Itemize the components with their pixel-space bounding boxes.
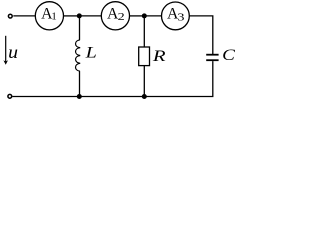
wire node b down to resistor (143, 16, 145, 47)
svg-text:1: 1 (51, 11, 56, 23)
resistor R body (139, 47, 150, 66)
wire A3 to top-right corner (189, 16, 213, 54)
node a (junction dot top of L) (77, 13, 82, 18)
wire top-left to A1 (13, 15, 35, 17)
svg-text:L: L (84, 44, 97, 61)
inductor L coil (76, 40, 81, 71)
wire node a down to inductor (79, 16, 81, 40)
wire A2 to node b (130, 15, 145, 17)
ammeter A2 (101, 2, 129, 30)
terminal bottom-left (8, 94, 12, 98)
node b (junction dot top of R) (142, 13, 147, 18)
voltage arrow u (3, 36, 8, 65)
svg-text:u: u (8, 42, 18, 62)
ammeter A1 (35, 2, 63, 30)
node c (junction dot bottom of L) (77, 94, 82, 99)
wire capacitor to bottom-right corner (12, 61, 213, 96)
terminal top-left (8, 14, 12, 18)
svg-text:2: 2 (118, 11, 125, 23)
svg-text:R: R (152, 46, 166, 65)
capacitor C1 bottom plate (206, 59, 218, 61)
wire node a to A2 (79, 15, 101, 17)
wire node b to A3 (144, 15, 161, 17)
capacitor C1 top plate (206, 54, 218, 56)
wire resistor to bottom node d (143, 66, 145, 97)
node d (junction dot bottom of R) (142, 94, 147, 99)
svg-text:C: C (222, 45, 236, 64)
wire A1 to node a (64, 15, 80, 17)
ammeter A3 (162, 2, 190, 30)
svg-text:3: 3 (177, 12, 184, 24)
wire inductor to bottom node c (79, 71, 81, 96)
